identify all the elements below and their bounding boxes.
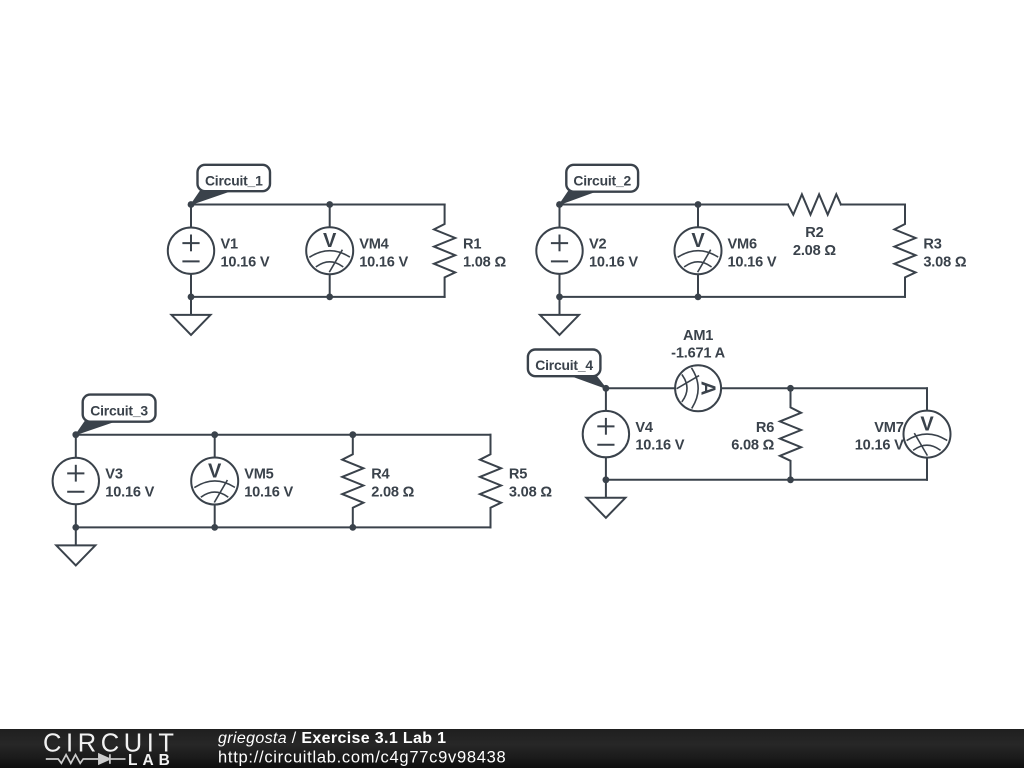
node c3 bottom-r4 xyxy=(349,524,356,531)
wire c2 bottom xyxy=(560,296,906,298)
ground c3 xyxy=(56,527,95,565)
resistor R1 xyxy=(434,205,455,297)
ground c4 xyxy=(586,480,625,518)
svg-text:http://circuitlab.com/c4g77c9v: http://circuitlab.com/c4g77c9v98438 xyxy=(218,749,506,767)
label VM5 value xyxy=(244,467,293,501)
callout Circuit_1 xyxy=(191,165,270,205)
label V1 value xyxy=(221,236,270,270)
node c3 top-r4 xyxy=(349,431,356,438)
node c2 bottom-mid xyxy=(695,294,702,301)
resistor R6 xyxy=(780,388,801,480)
ammeter AM1 xyxy=(675,365,721,411)
ground c2 xyxy=(540,297,579,335)
resistor R5 xyxy=(480,435,501,528)
voltmeter VM7 xyxy=(904,388,951,480)
wire c1 top xyxy=(191,204,445,206)
node c3 bottom-mid xyxy=(211,524,218,531)
node c3 bottom-left xyxy=(72,524,79,531)
node c3 top-mid xyxy=(211,431,218,438)
voltmeter VM5 xyxy=(191,435,238,528)
wire c4 top xyxy=(606,387,927,389)
resistor R2 xyxy=(788,194,841,214)
label R3 value xyxy=(923,236,966,270)
label V2 value xyxy=(589,236,638,270)
node c4 top-left xyxy=(603,385,610,392)
voltage source V4 xyxy=(583,388,629,480)
wire c3 bottom xyxy=(76,526,491,528)
node c1 bottom-left xyxy=(188,294,195,301)
node c2 top-mid xyxy=(695,201,702,208)
wire c4 bottom xyxy=(606,479,927,481)
voltage source V1 xyxy=(168,205,214,297)
callout Circuit_3 xyxy=(76,395,156,435)
footer bar xyxy=(0,729,1024,768)
voltmeter VM4 xyxy=(306,205,353,297)
callout Circuit_2 xyxy=(560,165,639,205)
node c4 bottom-mid xyxy=(787,476,794,483)
label R1 value xyxy=(463,236,506,270)
voltmeter VM6 xyxy=(675,205,722,297)
node c1 top-left xyxy=(188,201,195,208)
svg-text:griegosta / Exercise 3.1 Lab 1: griegosta / Exercise 3.1 Lab 1 xyxy=(218,730,446,747)
label R4 value xyxy=(371,467,414,501)
node c2 bottom-left xyxy=(556,294,563,301)
label VM7 value xyxy=(855,420,904,454)
wire c2 top-right xyxy=(841,204,905,206)
node c2 top-left xyxy=(556,201,563,208)
wire c3 top xyxy=(76,434,491,436)
node c1 bottom-mid xyxy=(326,294,333,301)
node c4 top-mid xyxy=(787,385,794,392)
ground c1 xyxy=(172,297,211,335)
node c4 bottom-left xyxy=(603,476,610,483)
resistor R4 xyxy=(342,435,363,528)
callout Circuit_4 xyxy=(528,350,606,389)
svg-text:LAB: LAB xyxy=(128,752,175,768)
voltage source V3 xyxy=(53,435,99,528)
label R2 value xyxy=(793,225,836,259)
label AM1 value xyxy=(671,328,725,362)
wire c1 bottom xyxy=(191,296,445,298)
label V3 value xyxy=(105,467,154,501)
resistor R3 xyxy=(894,205,915,297)
voltage source V2 xyxy=(536,205,582,297)
label R5 value xyxy=(509,467,552,501)
label VM6 value xyxy=(728,236,777,270)
logo doodle resistor+diode xyxy=(46,754,126,764)
label V4 value xyxy=(635,420,684,454)
wire c2 top-left xyxy=(560,204,789,206)
label R6 value xyxy=(731,420,774,454)
label VM4 value xyxy=(359,236,408,270)
node c3 top-left xyxy=(72,431,79,438)
node c1 top-mid xyxy=(326,201,333,208)
